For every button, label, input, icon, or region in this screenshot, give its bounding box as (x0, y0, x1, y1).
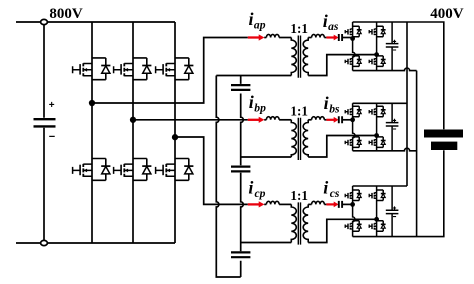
svg-text:800V: 800V (49, 6, 83, 22)
svg-text:1:1: 1:1 (290, 21, 308, 36)
svg-text:bp: bp (254, 101, 266, 114)
svg-text:i: i (323, 178, 328, 198)
svg-text:+: + (49, 100, 55, 111)
svg-text:1:1: 1:1 (290, 103, 308, 118)
svg-text:as: as (328, 20, 339, 33)
svg-text:i: i (248, 177, 253, 197)
svg-text:i: i (323, 11, 328, 31)
svg-text:bs: bs (329, 103, 340, 116)
svg-text:i: i (324, 93, 329, 113)
svg-text:ap: ap (254, 19, 266, 32)
svg-text:400V: 400V (430, 6, 464, 22)
svg-text:i: i (249, 9, 254, 29)
svg-text:i: i (249, 92, 254, 112)
svg-text:cs: cs (330, 187, 340, 200)
svg-text:−: − (49, 131, 55, 143)
svg-text:cp: cp (255, 187, 266, 200)
svg-text:1:1: 1:1 (290, 188, 308, 203)
